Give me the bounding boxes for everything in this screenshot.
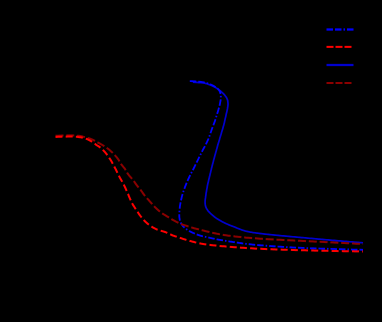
bright red dashed sigmoid — [56, 137, 364, 252]
solid medium-blue S-curve — [193, 82, 363, 243]
legend line 1: blue dash-dot — [327, 28, 354, 30]
legend line 2: red dashed — [327, 46, 354, 48]
dash-dot blue S-curve — [179, 81, 363, 250]
legend line 3: blue solid — [327, 64, 354, 66]
legend line 4: dark red dashed — [327, 82, 354, 84]
dark red dashed sigmoid — [56, 135, 364, 244]
